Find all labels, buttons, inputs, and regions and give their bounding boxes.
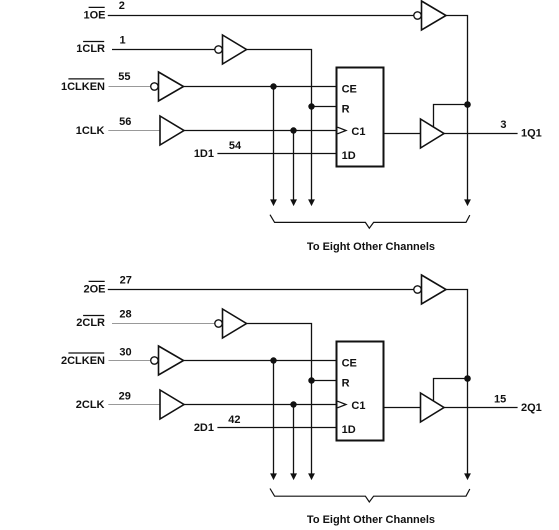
- svg-text:54: 54: [229, 140, 242, 152]
- flip-flop U5 (channel 1 D latch): [337, 68, 384, 167]
- brace channel 2: [270, 489, 470, 503]
- wire 1CLR input stub: [112, 49, 215, 51]
- svg-text:1D: 1D: [342, 150, 356, 162]
- buffer U3 (1CLKEN): [159, 72, 184, 101]
- brace channel 1: [270, 215, 470, 229]
- node 1OE inverter bubble: [414, 12, 421, 19]
- wire 2Q1 output: [444, 407, 518, 409]
- buffer U8 (2CLR inverter): [223, 309, 247, 338]
- wire 1D input: [217, 153, 336, 155]
- buffer U12 (2Q1 output buffer): [421, 393, 445, 422]
- svg-text:15: 15: [494, 393, 506, 405]
- overline 1CLKEN: [68, 78, 104, 80]
- wire 2CLR to R input: [247, 324, 312, 475]
- svg-text:C1: C1: [351, 126, 365, 138]
- svg-text:C1: C1: [351, 400, 365, 412]
- svg-text:To Eight Other Channels: To Eight Other Channels: [307, 514, 435, 526]
- svg-text:28: 28: [119, 309, 131, 321]
- svg-text:30: 30: [119, 347, 131, 359]
- svg-text:29: 29: [119, 390, 131, 402]
- overline 2OE: [89, 280, 105, 282]
- wire CE branch down channel 2: [273, 361, 275, 475]
- arrowhead channel-2 OE branch: [464, 473, 471, 480]
- wire R input: [312, 106, 337, 108]
- wire flip-flop output channel 2: [384, 407, 421, 409]
- svg-text:CE: CE: [342, 358, 357, 370]
- node 1CLKEN buffer bubble: [151, 83, 158, 90]
- svg-text:55: 55: [118, 71, 130, 83]
- buffer U4 (1CLK): [160, 116, 184, 145]
- node OE junction dot channel 2: [464, 375, 471, 382]
- arrowhead channel-1 CLR branch: [308, 199, 315, 206]
- wire C1 branch down channel 2: [293, 405, 295, 475]
- svg-text:1D1: 1D1: [194, 148, 214, 160]
- buffer U6 (1Q1 output buffer): [421, 119, 445, 148]
- wire 2CLKEN input stub: [109, 360, 151, 362]
- svg-text:2CLR: 2CLR: [76, 317, 105, 329]
- pin C1 clock symbol: [338, 127, 347, 134]
- svg-text:1OE: 1OE: [83, 10, 105, 22]
- svg-text:27: 27: [120, 275, 132, 287]
- buffer U7 (2OE output-enable inverter): [422, 275, 447, 304]
- overline 1OE: [89, 6, 105, 8]
- wire C1 branch down: [293, 131, 295, 201]
- node C1 junction dot channel 2: [290, 401, 296, 407]
- svg-text:R: R: [342, 103, 350, 115]
- wire 2CLR input stub: [112, 323, 215, 325]
- node 2CLKEN buffer bubble: [151, 357, 158, 364]
- arrowhead channel-2 CE branch: [270, 473, 277, 480]
- wire 2D input: [217, 427, 336, 429]
- svg-text:R: R: [342, 377, 350, 389]
- arrowhead channel-1 OE branch: [464, 199, 471, 206]
- node R junction dot: [308, 103, 314, 109]
- wire CE input channel 2: [184, 360, 337, 362]
- wire 2OE input stub: [108, 289, 414, 291]
- buffer U2 (1CLR inverter): [223, 35, 247, 64]
- wire 1OE inverter output: [446, 16, 468, 201]
- buffer U9 (2CLKEN): [159, 346, 184, 375]
- buffer U1 (1OE output-enable inverter): [422, 1, 447, 30]
- wire 2OE inverter output: [446, 290, 468, 475]
- arrowhead channel-2 C1 branch: [290, 473, 297, 480]
- node OE junction dot: [464, 101, 471, 108]
- wire 1CLK input stub: [108, 130, 160, 132]
- wire output-buffer enable channel 2: [434, 379, 468, 402]
- node 2OE inverter bubble: [414, 286, 421, 293]
- wire output-buffer enable: [434, 105, 468, 128]
- wire CE input: [184, 86, 337, 88]
- node CE junction dot: [270, 83, 276, 89]
- wire C1 input: [184, 130, 336, 132]
- svg-text:1: 1: [119, 34, 125, 46]
- wire 1CLKEN input stub: [109, 86, 151, 88]
- arrowhead channel-1 CE branch: [270, 199, 277, 206]
- wire 2CLK input stub: [108, 404, 160, 406]
- svg-text:1CLR: 1CLR: [76, 43, 105, 55]
- svg-text:2CLKEN: 2CLKEN: [61, 355, 105, 367]
- wire R input channel 2: [312, 380, 337, 382]
- arrowhead channel-1 C1 branch: [290, 199, 297, 206]
- arrowhead channel-2 CLR branch: [308, 473, 315, 480]
- node C1 junction dot: [290, 127, 296, 133]
- svg-text:1Q1: 1Q1: [521, 128, 542, 140]
- svg-text:2OE: 2OE: [83, 284, 105, 296]
- wire 1Q1 output: [444, 133, 518, 135]
- wire CE branch down: [273, 87, 275, 201]
- wire 1OE input stub: [108, 15, 414, 17]
- wire flip-flop output: [384, 133, 421, 135]
- svg-text:To Eight Other Channels: To Eight Other Channels: [307, 241, 435, 253]
- svg-text:1CLK: 1CLK: [76, 125, 105, 137]
- overline 1CLR: [83, 41, 104, 43]
- svg-text:42: 42: [228, 414, 240, 426]
- svg-text:2: 2: [119, 0, 125, 12]
- flip-flop U11 (channel 2 D latch): [337, 342, 384, 441]
- node CE junction dot channel 2: [270, 357, 276, 363]
- overline 2CLR: [83, 315, 104, 317]
- svg-text:2CLK: 2CLK: [76, 399, 105, 411]
- node 2CLR inverter bubble: [215, 320, 222, 327]
- svg-text:2Q1: 2Q1: [521, 402, 542, 414]
- buffer U10 (2CLK): [160, 390, 184, 419]
- overline 2CLKEN: [68, 352, 104, 354]
- node 1CLR inverter bubble: [215, 46, 222, 53]
- svg-text:1CLKEN: 1CLKEN: [61, 81, 105, 93]
- wire C1 input channel 2: [184, 404, 336, 406]
- svg-text:56: 56: [119, 116, 131, 128]
- node R junction dot channel 2: [308, 377, 314, 383]
- wire 1CLR to R input: [247, 50, 312, 201]
- svg-text:CE: CE: [342, 84, 357, 96]
- svg-text:1D: 1D: [342, 424, 356, 436]
- pin C1 clock symbol channel 2: [338, 401, 347, 408]
- svg-text:2D1: 2D1: [194, 422, 214, 434]
- svg-text:3: 3: [500, 119, 506, 131]
